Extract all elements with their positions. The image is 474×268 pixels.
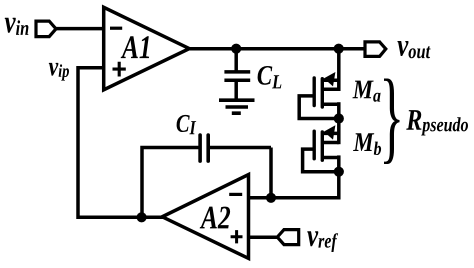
Mb drain vertical [337,119,341,145]
node: Ma source / Mb drain [334,113,344,123]
Mb gate wire [303,149,339,172]
wire CL top [234,49,238,72]
label Mb [353,133,381,155]
wire CI feedback top left [142,148,200,218]
port vin [36,21,56,36]
Ma drain stub [322,78,339,82]
Mb bulk terminal [322,141,339,145]
node: A2 minus / CI junction [266,193,276,203]
Ma bulk terminal [322,88,339,92]
wire vin to A1 minus input [56,27,105,31]
Ma source vertical [337,102,341,118]
wire to vout port [339,47,365,51]
label A2 [200,207,230,229]
wire vip: vertical and A1 plus input [78,68,163,218]
wire A2 plus input to vref [249,236,279,240]
transistor Mb [303,119,339,172]
capacitor CI [198,135,202,161]
node: output-CL junction [231,44,241,54]
Mb gate bar [313,131,316,159]
label CI [177,115,197,134]
capacitor CL [224,70,250,74]
brace Rpseudo [384,79,400,165]
label vref [307,231,338,252]
transistor Ma [299,49,339,119]
A2 plus sign [231,230,243,243]
Mb drain stub [322,132,339,136]
Ma channel bar [321,79,324,107]
A2 minus sign [229,193,242,196]
wire CI right vertical [269,148,273,198]
label A1 [121,36,149,58]
label vout [397,41,430,58]
A1 minus sign [110,27,122,30]
wire Mb source down and left to A2 minus [249,172,339,198]
Mb arrow [324,125,336,139]
Mb channel bar [321,132,324,160]
label CL [258,66,282,88]
wire CI feedback top right [208,146,271,150]
Mb source terminal [322,156,339,160]
Ma gate wire [299,96,339,119]
Ma source terminal [322,103,339,107]
wire CL bottom [234,80,238,100]
node: Mb source junction [334,167,344,177]
Ma arrow [324,72,336,86]
wire A1 output [188,47,365,51]
A1 plus sign [113,62,126,77]
Mb source vertical [337,155,341,171]
port vout [365,42,386,57]
ground [219,100,255,113]
op-amp A1 [104,7,190,90]
Ma drain vertical (from output node) [337,49,341,91]
node: A2 output junction [137,212,147,222]
op-amp A2 (pointing left) [162,175,248,259]
label Rpseudo [406,110,468,135]
label Ma [353,81,381,102]
port vref (points left) [277,230,298,245]
Ma gate bar [313,78,316,106]
node: output-Ma junction [334,44,344,54]
label vip [49,63,69,81]
label vin [5,18,29,35]
